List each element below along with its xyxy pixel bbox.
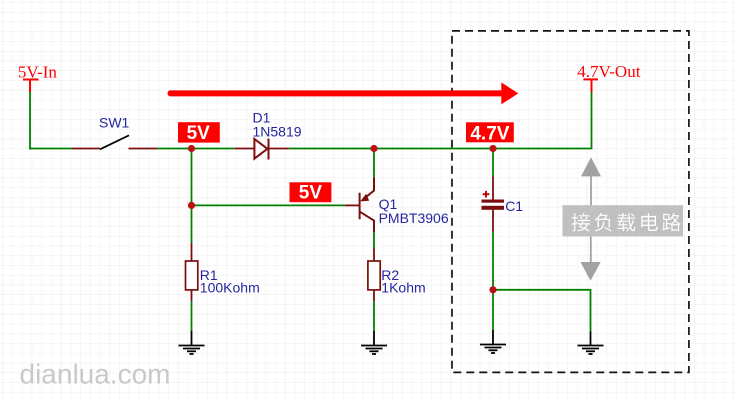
svg-text:100Kohm: 100Kohm xyxy=(200,280,260,296)
svg-text:C1: C1 xyxy=(505,198,523,214)
svg-text:5V: 5V xyxy=(187,123,211,144)
svg-text:5V: 5V xyxy=(299,183,323,204)
svg-text:5V-In: 5V-In xyxy=(18,62,58,81)
svg-text:4.7V: 4.7V xyxy=(470,123,509,144)
svg-text:4.7V-Out: 4.7V-Out xyxy=(577,62,640,81)
svg-text:1Kohm: 1Kohm xyxy=(381,280,425,296)
svg-text:PMBT3906: PMBT3906 xyxy=(379,210,449,226)
svg-text:SW1: SW1 xyxy=(99,115,130,131)
svg-text:1N5819: 1N5819 xyxy=(253,123,302,139)
svg-text:dianlua.com: dianlua.com xyxy=(20,359,171,390)
